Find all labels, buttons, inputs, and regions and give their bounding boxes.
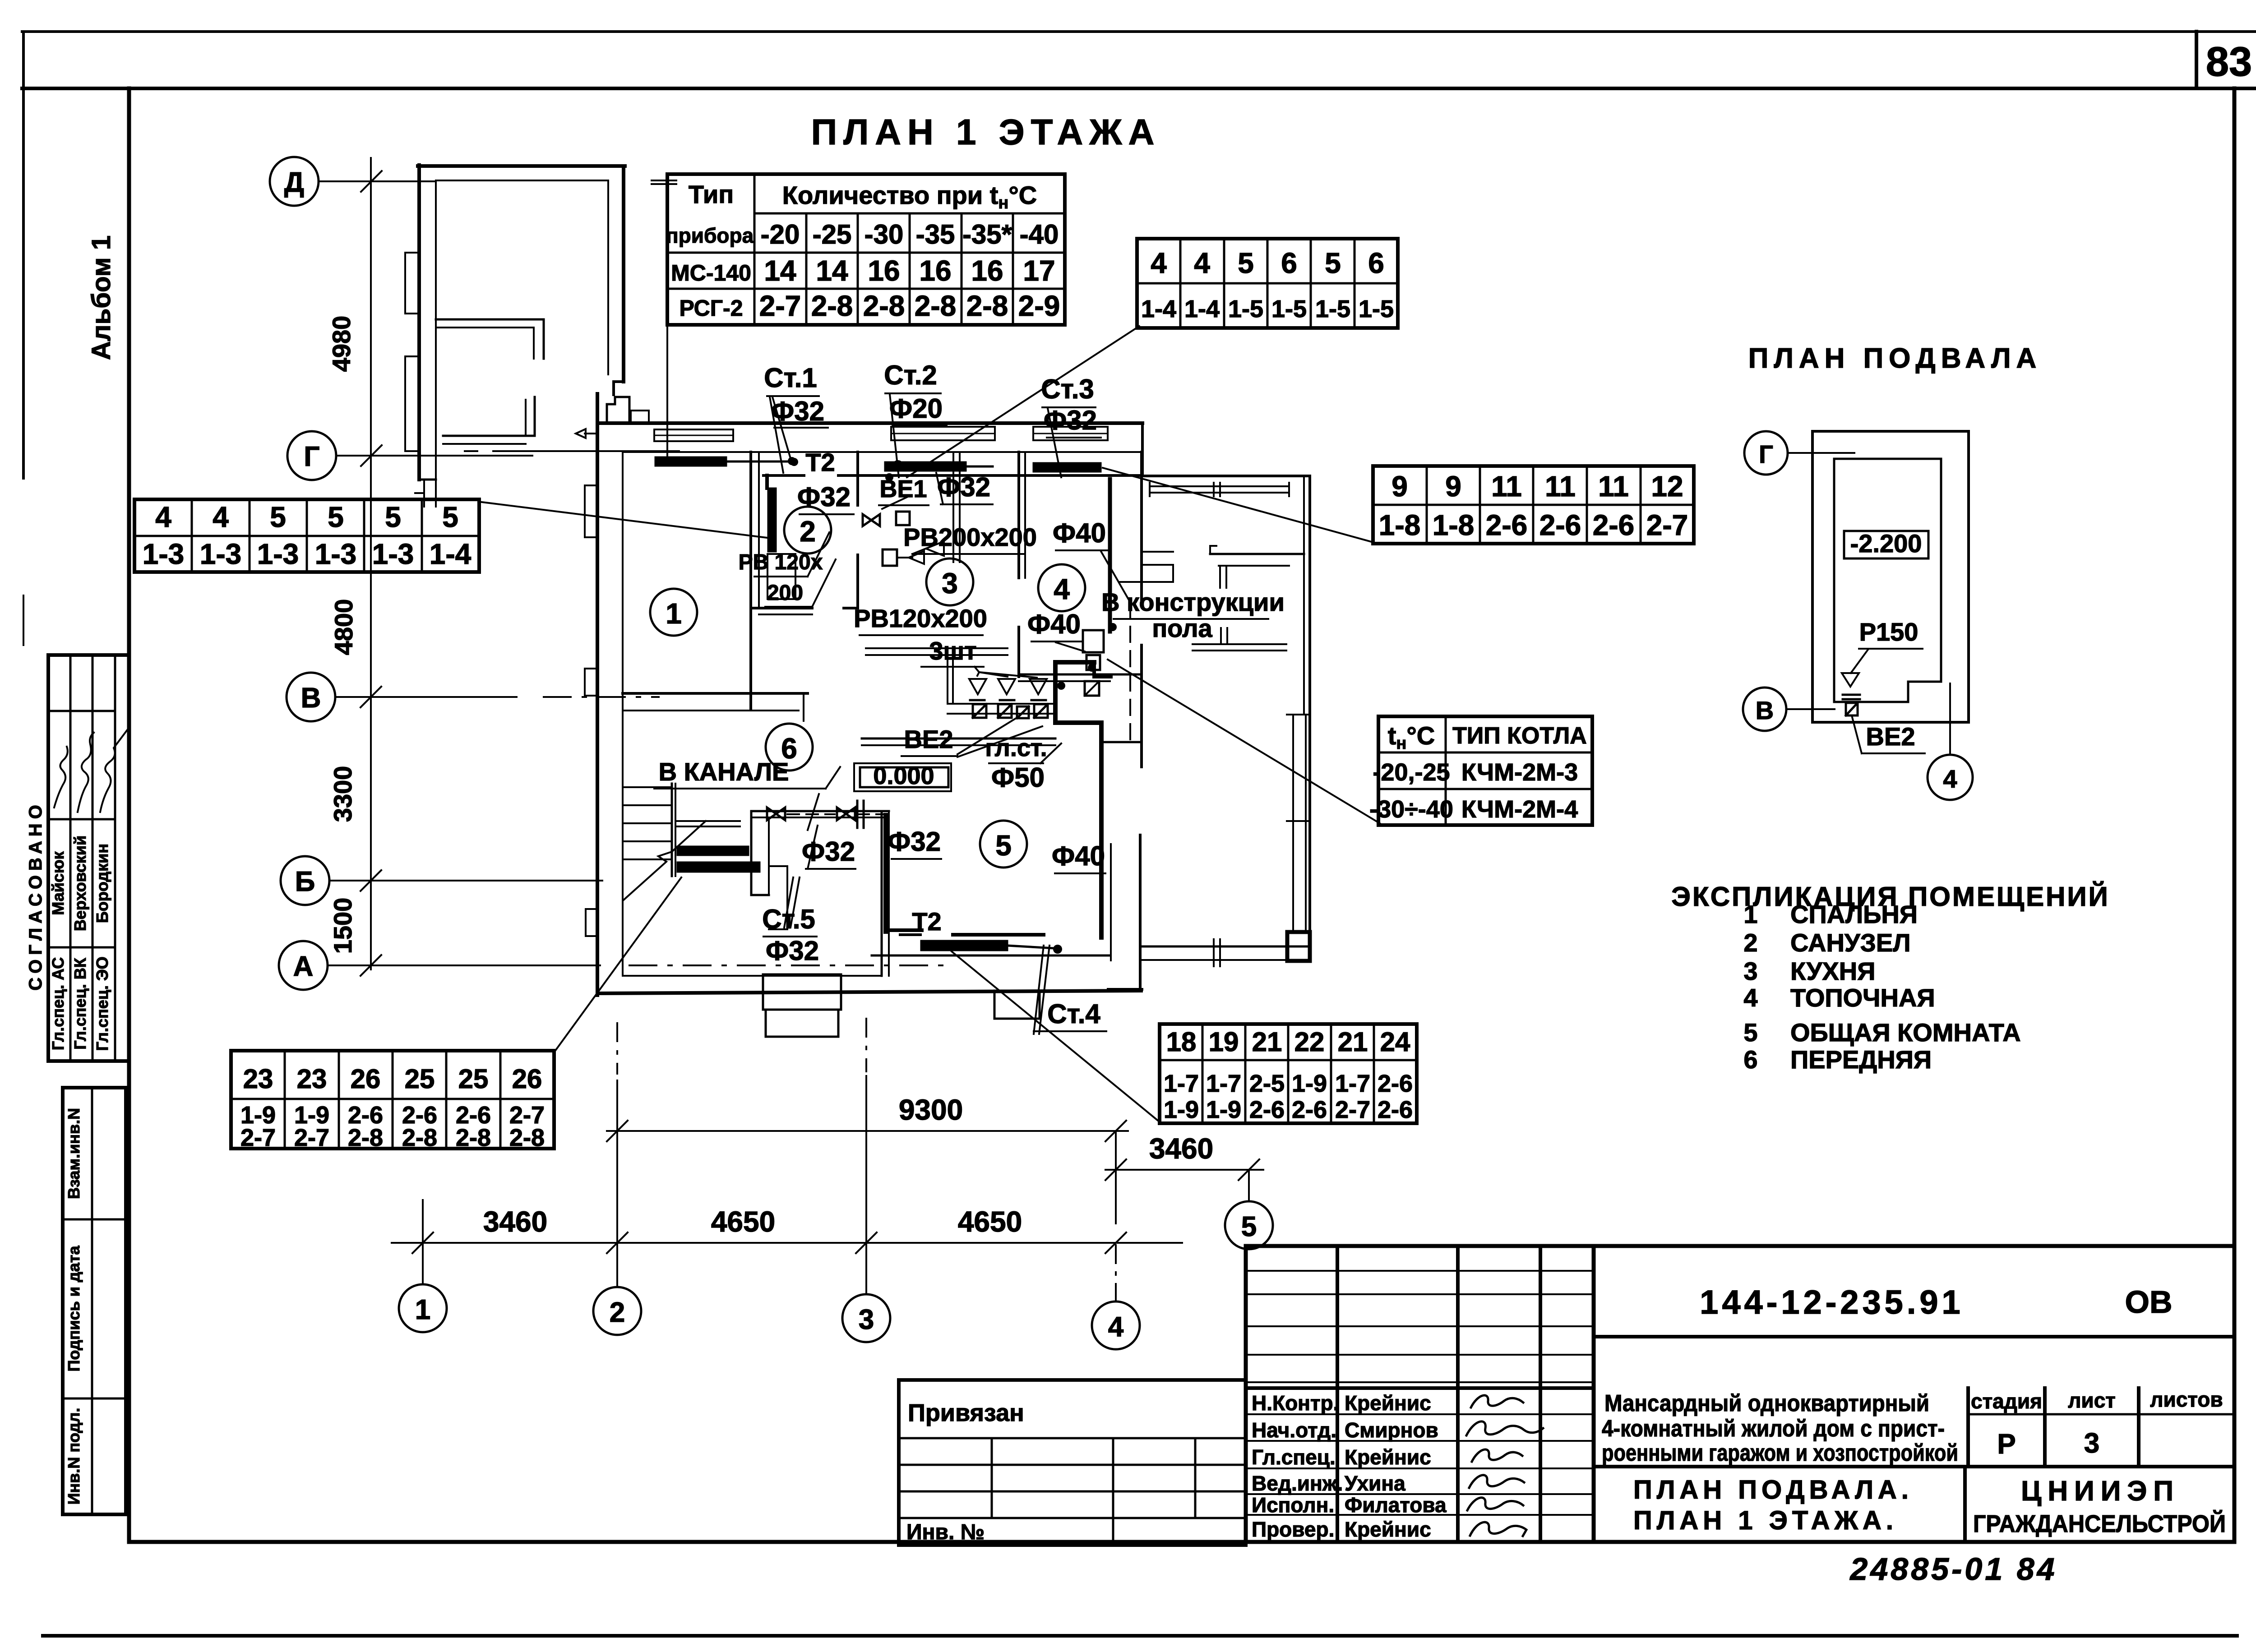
garage inner wall 2 [443,435,535,437]
svg-text:1-3: 1-3 [372,538,414,570]
leader T2 to plan [907,326,1139,477]
svg-text:2-7: 2-7 [1335,1096,1370,1123]
svg-text:4: 4 [1194,247,1210,279]
svg-text:1-5: 1-5 [1271,295,1307,323]
dim line bottom chain [392,1242,1182,1244]
svg-text:6: 6 [1368,247,1384,279]
svg-text:Д: Д [284,167,304,198]
room4 bottom wall [1019,674,1142,676]
svg-text:-20: -20 [761,219,800,249]
garage top wall [418,164,625,168]
svg-text:144-12-235.91: 144-12-235.91 [1700,1283,1964,1321]
svg-text:1-4: 1-4 [1184,295,1220,323]
table bottom right 18-19-21 [1160,1024,1417,1123]
basement level box [1844,531,1928,558]
svg-text:4: 4 [213,501,229,533]
T2 pipe along top wall [763,474,804,477]
svg-text:-2.200: -2.200 [1850,529,1922,558]
svg-text:РВ120х200: РВ120х200 [854,604,987,632]
table boiler KChM [1378,716,1592,825]
svg-text:В конструкции: В конструкции [1101,588,1285,616]
garage door stub right [652,180,676,184]
stairs [624,786,672,788]
svg-text:-35: -35 [916,219,955,249]
svg-text:4-комнатный жилой дом с прист-: 4-комнатный жилой дом с прист- [1602,1416,1945,1442]
left wall window 1 [585,485,597,537]
svg-text:21: 21 [1252,1027,1282,1057]
svg-text:4: 4 [155,501,171,533]
svg-text:1-5: 1-5 [1315,295,1350,323]
veranda bottom wall [1142,946,1309,948]
top band divider for sheet number [2195,32,2198,88]
svg-text:6: 6 [1743,1045,1757,1074]
svg-text:1-8: 1-8 [1433,509,1475,541]
stairs break line [624,821,706,900]
svg-text:Ф32: Ф32 [888,826,941,857]
axis 1 vertical [422,1200,424,1283]
svg-text:ВЕ2: ВЕ2 [1866,722,1915,751]
svg-text:3460: 3460 [1149,1132,1213,1165]
house bottom wall inner [623,975,881,977]
left wall window 2 [585,669,597,696]
room6/5 wall [881,811,883,976]
svg-text:21: 21 [1338,1027,1368,1057]
svg-text:1-7: 1-7 [1206,1070,1241,1097]
svg-text:Исполн.: Исполн. [1252,1493,1334,1517]
kitchen counter [866,647,1008,649]
sheet outer thin border bottom [43,1634,2237,1638]
lobby inner step [769,865,787,867]
room2 bottom wall [751,607,812,609]
svg-text:пола: пола [1152,614,1212,642]
svg-text:листов: листов [2150,1388,2223,1411]
svg-text:Ст.1: Ст.1 [764,363,817,393]
radiator room1 top [655,457,726,466]
radiator room3 top [885,462,966,471]
radiator room5 bottom [921,941,1008,951]
stamp upper empty rows [1246,1270,1594,1272]
porch bottom right [994,991,1040,1019]
svg-text:КЧМ-2М-4: КЧМ-2М-4 [1461,796,1578,823]
basement axis 4 [1928,755,1973,800]
svg-text:2: 2 [1743,928,1757,957]
svg-text:2-9: 2-9 [1018,290,1060,322]
svg-text:-30: -30 [864,219,904,249]
leader T3 to plan [478,502,767,538]
svg-text:Ф40: Ф40 [1052,841,1105,871]
svg-text:3шт: 3шт [929,637,976,665]
privyazan block [899,1380,1246,1545]
svg-text:Взам.инв.N: Взам.инв.N [65,1108,83,1199]
svg-text:5: 5 [1241,1211,1257,1242]
svg-text:2-6: 2-6 [1249,1096,1285,1123]
bathroom fixtures [767,554,795,599]
svg-text:17: 17 [1023,254,1055,287]
svg-text:2-6: 2-6 [1378,1070,1413,1097]
garage left wall [417,165,421,480]
svg-text:4650: 4650 [958,1205,1022,1238]
porch bottom left [763,974,841,1010]
svg-text:83: 83 [2206,39,2252,85]
svg-text:26: 26 [512,1064,542,1094]
svg-text:1-4: 1-4 [1141,295,1176,323]
svg-text:4: 4 [1943,765,1957,793]
svg-text:16: 16 [868,254,900,287]
veranda top wall [1142,475,1310,477]
svg-text:стадия: стадия [1971,1389,2042,1413]
lobby riser marks [857,801,864,828]
svg-text:2-7: 2-7 [759,290,801,322]
svg-text:2-8: 2-8 [402,1124,437,1151]
svg-text:1-3: 1-3 [257,538,299,570]
svg-text:4650: 4650 [711,1205,775,1238]
svg-text:Ф32: Ф32 [766,936,819,966]
svg-text:1: 1 [666,597,682,630]
svg-text:Филатова: Филатова [1345,1493,1447,1517]
svg-text:3: 3 [942,567,958,600]
room circle 3 [926,558,973,605]
garage right wall [622,166,625,382]
sink counter lines [948,703,1053,705]
svg-text:Крейнис: Крейнис [1345,1391,1431,1415]
svg-text:200: 200 [767,581,803,605]
svg-text:ПЕРЕДНЯЯ: ПЕРЕДНЯЯ [1790,1045,1932,1074]
thick pipe lobby down [883,815,888,932]
svg-text:14: 14 [816,254,848,287]
svg-text:ОВ: ОВ [2125,1284,2173,1320]
svg-text:1-3: 1-3 [200,538,242,570]
svg-text:1-7: 1-7 [1164,1070,1199,1097]
svg-text:В: В [301,683,321,714]
svg-text:1-8: 1-8 [1379,509,1421,541]
lobby valve 2 [837,808,855,820]
axis A circle [279,941,328,990]
table bottom left 23-23-26 [231,1051,554,1149]
veranda window right [1292,715,1294,933]
axis D circle [270,157,319,206]
svg-text:9: 9 [1392,470,1408,503]
svg-text:РВ200х200: РВ200х200 [903,523,1037,551]
svg-text:Ф40: Ф40 [1053,518,1106,548]
room circle 5 [980,821,1027,868]
house left wall inner [622,452,624,976]
lobby left wall [750,811,753,895]
room circle 4 [1038,564,1085,611]
svg-text:16: 16 [919,254,951,287]
svg-text:3: 3 [859,1304,874,1335]
svg-text:1-9: 1-9 [1164,1096,1199,1123]
svg-text:2-7: 2-7 [1646,509,1688,541]
svg-text:1-9: 1-9 [1206,1096,1241,1123]
main frame [127,88,131,1542]
svg-text:3: 3 [2084,1428,2099,1459]
leader T1 to plan [666,325,668,461]
svg-text:2: 2 [800,515,816,548]
svg-text:ПЛАН 1 ЭТАЖА: ПЛАН 1 ЭТАЖА [811,112,1161,152]
dashed floor pipe [1129,602,1131,740]
svg-text:5: 5 [328,501,344,533]
svg-text:Т2: Т2 [805,448,835,476]
axis G circle [287,431,336,480]
room3/4 wall [1017,452,1020,578]
veranda interior wall 1 [1143,551,1173,553]
svg-text:Подпись и дата: Подпись и дата [65,1246,83,1372]
svg-text:-40: -40 [1020,219,1059,249]
table top right 4-4-5-6-5-6 [1137,239,1398,328]
svg-text:ЦНИИЭП: ЦНИИЭП [2021,1476,2180,1507]
svg-text:5: 5 [1325,247,1341,279]
svg-text:3300: 3300 [328,766,357,822]
svg-text:11: 11 [1598,470,1629,503]
svg-text:5: 5 [385,501,401,533]
axis 4 vertical [1115,1131,1117,1223]
svg-text:2-6: 2-6 [1539,509,1581,541]
svg-text:Гл.спец. АС: Гл.спец. АС [49,957,67,1051]
stamp column lines [1336,1246,1339,1542]
svg-text:2-7: 2-7 [240,1124,276,1151]
svg-text:2-6: 2-6 [1486,509,1528,541]
svg-text:Верховский: Верховский [71,835,89,931]
room circle 2 [784,507,831,554]
svg-text:ПЛАН ПОДВАЛА: ПЛАН ПОДВАЛА [1748,343,2042,374]
svg-text:Крейнис: Крейнис [1345,1445,1431,1469]
sheet outer thin border left [22,32,25,478]
svg-text:лист: лист [2068,1389,2116,1412]
svg-text:18: 18 [1166,1027,1197,1057]
radiator room6 bar2 [677,862,760,872]
svg-text:9300: 9300 [899,1094,963,1126]
svg-text:Ф32: Ф32 [937,472,990,502]
svg-text:2: 2 [610,1297,625,1328]
boiler room4 [1086,655,1100,670]
garage window left 1 [405,253,419,314]
svg-text:2-8: 2-8 [966,290,1008,322]
basement axis G [1744,431,1788,475]
top wall window 3 [1033,427,1108,440]
top band bottom line / frame top [22,87,2256,90]
svg-text:5: 5 [1743,1018,1757,1047]
house top right corner connector [1141,423,1144,476]
axis circle 2 [593,1287,641,1335]
top wall window 1 [654,429,733,441]
svg-text:2-6: 2-6 [1378,1096,1413,1123]
basement inner wall [1834,459,1941,702]
svg-text:Б: Б [295,866,315,897]
svg-text:24: 24 [1380,1027,1410,1057]
axis circle 3 [842,1294,890,1342]
approval block box [48,655,129,1061]
fixture squares row [973,704,986,718]
svg-text:-20,-25: -20,-25 [1373,759,1450,786]
svg-text:Ф50: Ф50 [991,762,1045,793]
svg-text:А: А [293,951,314,982]
basement axis V [1743,688,1786,731]
svg-text:3460: 3460 [483,1205,547,1238]
svg-text:4: 4 [1108,1311,1124,1343]
svg-text:Гл.спец. ВК: Гл.спец. ВК [71,957,89,1049]
svg-text:Мансардный одноквартирный: Мансардный одноквартирный [1604,1390,1929,1417]
svg-text:-30÷-40: -30÷-40 [1369,796,1453,823]
svg-text:1-9: 1-9 [1292,1070,1327,1097]
sheet outer thin border top [22,30,2256,33]
svg-text:4: 4 [1054,573,1070,605]
svg-text:Привязан: Привязан [908,1399,1024,1426]
svg-text:22: 22 [1294,1027,1325,1057]
svg-text:1500: 1500 [328,898,357,954]
svg-text:1-3: 1-3 [143,538,185,570]
svg-text:Ст.3: Ст.3 [1041,374,1094,404]
svg-text:Р: Р [1997,1429,2016,1460]
kitchen bottom wall [862,738,1055,740]
axis 2 vertical [616,1023,618,1074]
svg-text:Провер.: Провер. [1252,1518,1334,1541]
svg-text:МС-140: МС-140 [671,260,751,286]
house top wall inner [623,451,1142,453]
svg-text:2-7: 2-7 [294,1124,329,1151]
svg-text:5: 5 [1238,247,1254,279]
basement outer wall [1812,431,1969,722]
table right 9-9-11 [1373,466,1694,544]
svg-text:4800: 4800 [329,599,358,655]
bathroom right thin partition [952,452,954,562]
svg-text:2-8: 2-8 [811,290,853,322]
leader T4 to plan [1103,468,1375,543]
leader T7 to plan [555,877,681,1051]
svg-text:Инв.N подл.: Инв.N подл. [65,1408,83,1505]
radiator room2 vertical [768,488,776,552]
svg-text:4980: 4980 [327,316,356,372]
title block outline [1246,1246,2234,1542]
svg-text:4: 4 [1743,983,1757,1012]
svg-text:2-6: 2-6 [1292,1096,1327,1123]
svg-text:Бородкин: Бородкин [93,844,111,923]
svg-text:САНУЗЕЛ: САНУЗЕЛ [1790,928,1911,957]
svg-text:16: 16 [971,254,1003,287]
svg-text:23: 23 [297,1064,327,1094]
dim line 3460 right [1105,1169,1263,1171]
stamp name rows lines [1246,1386,1594,1390]
axis V circle [287,673,335,721]
svg-text:Вед.инж.: Вед.инж. [1252,1472,1343,1495]
chimney stub top-left [607,397,629,422]
svg-text:1-4: 1-4 [430,538,472,570]
house bottom wall outer [597,991,1141,993]
svg-text:0.000: 0.000 [873,762,934,789]
svg-text:РСГ-2: РСГ-2 [679,295,743,321]
approval signatures squiggles [54,747,68,808]
svg-text:Ст.4: Ст.4 [1047,999,1100,1029]
svg-text:Крейнис: Крейнис [1345,1518,1431,1541]
house left wall outer [596,394,599,995]
veranda interior wall 2 [1193,643,1286,645]
garage window left 2 [405,356,419,451]
dim line 9300 [607,1130,1128,1132]
svg-text:гл.ст.: гл.ст. [985,734,1047,761]
garage dim line vertical [370,158,372,489]
axis circle 4 [1092,1301,1140,1349]
svg-text:5: 5 [442,501,458,533]
thick pipe vertical right wall [1108,479,1112,632]
svg-text:2-8: 2-8 [509,1124,545,1151]
svg-text:Р150: Р150 [1859,618,1919,646]
svg-text:ПЛАН 1 ЭТАЖА.: ПЛАН 1 ЭТАЖА. [1633,1506,1898,1535]
svg-text:tн°C: tн°C [1388,721,1435,753]
svg-text:5: 5 [270,501,286,533]
svg-text:СОГЛАСОВАНО: СОГЛАСОВАНО [26,800,46,990]
svg-text:Т2: Т2 [912,907,941,936]
svg-text:1-5: 1-5 [1228,295,1263,323]
svg-text:14: 14 [764,254,796,287]
svg-text:КУХНЯ: КУХНЯ [1790,957,1875,985]
radiator room4 top [1033,463,1101,472]
svg-text:24885-01 84: 24885-01 84 [1849,1551,2057,1587]
svg-text:2-8: 2-8 [456,1124,491,1151]
svg-text:2-8: 2-8 [915,290,957,322]
svg-text:Майсюк: Майсюк [49,851,67,915]
axis circle 1 [399,1284,447,1332]
svg-text:Г: Г [304,441,319,472]
svg-text:ОБЩАЯ КОМНАТА: ОБЩАЯ КОМНАТА [1790,1018,2021,1047]
svg-text:Альбом 1: Альбом 1 [87,235,116,360]
svg-text:ТОПОЧНАЯ: ТОПОЧНАЯ [1790,983,1935,1012]
garage bottom partial [419,479,436,481]
wall room1/6 [623,692,808,695]
table pribor (MC-140) [667,174,1065,325]
lobby dashed pipe [787,813,835,815]
lobby top wall [751,810,889,812]
svg-text:В: В [1756,696,1774,724]
svg-text:Ст.5: Ст.5 [762,904,815,934]
svg-text:-35*: -35* [962,219,1012,249]
svg-text:11: 11 [1491,470,1522,503]
svg-text:Ф32: Ф32 [797,482,851,512]
svg-text:11: 11 [1545,470,1576,503]
axis B circle [281,856,329,905]
svg-text:В КАНАЛЕ: В КАНАЛЕ [659,757,789,786]
svg-text:9: 9 [1445,470,1461,503]
svg-text:Ф20: Ф20 [889,393,943,424]
radiator room6 bar1 [677,846,749,855]
svg-text:ГРАЖДАНСЕЛЬСТРОЙ: ГРАЖДАНСЕЛЬСТРОЙ [1973,1510,2226,1537]
svg-text:Гл.спец. ЭО: Гл.спец. ЭО [93,956,111,1051]
svg-text:2-6: 2-6 [1593,509,1635,541]
room1 stub [803,693,804,721]
svg-text:Г: Г [1759,440,1773,468]
stamp stage grid [1966,1388,1970,1467]
axis circle 5 [1225,1201,1273,1249]
label 0.000 [854,763,951,791]
svg-text:-25: -25 [813,219,852,249]
house top wall outer [597,421,1142,425]
svg-text:1: 1 [1743,900,1757,928]
svg-text:3: 3 [1743,957,1757,985]
svg-text:Ухина: Ухина [1345,1472,1405,1495]
svg-text:Смирнов: Смирнов [1345,1418,1438,1442]
stamp signatures [1471,1395,1523,1407]
house right wall [1140,452,1143,605]
svg-text:4: 4 [1151,247,1167,279]
svg-text:ПЛАН ПОДВАЛА.: ПЛАН ПОДВАЛА. [1633,1475,1913,1504]
svg-text:роенными гаражом и хозпостройк: роенными гаражом и хозпостройкой [1602,1440,1958,1466]
room circle 1 [650,589,697,636]
svg-text:СПАЛЬНЯ: СПАЛЬНЯ [1790,900,1918,928]
svg-text:12: 12 [1651,470,1683,503]
axis 5 vertical [1248,1170,1250,1201]
svg-text:Ст.2: Ст.2 [884,360,937,390]
lobby valve 1 [767,808,785,820]
svg-text:25: 25 [458,1064,489,1094]
svg-text:1-3: 1-3 [315,538,357,570]
